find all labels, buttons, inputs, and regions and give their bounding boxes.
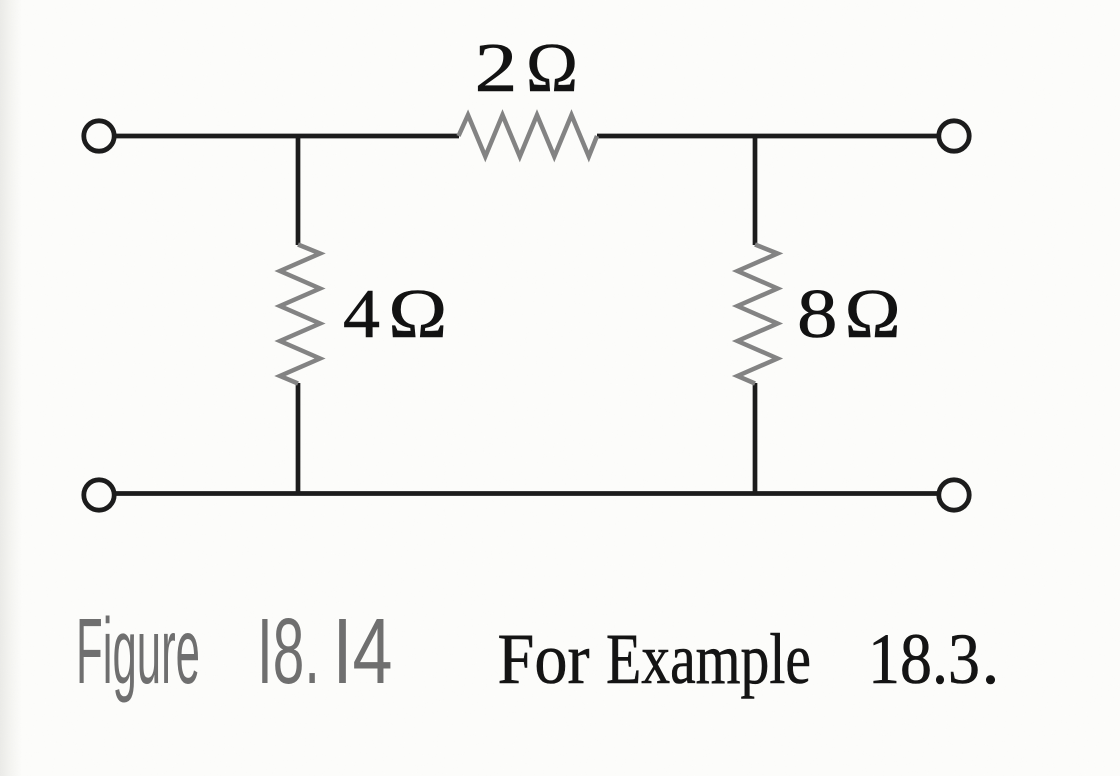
svg-text:Ω: Ω bbox=[388, 276, 447, 353]
svg-text:Ω: Ω bbox=[526, 30, 578, 107]
svg-text:Ω: Ω bbox=[845, 276, 901, 353]
resistor R3 8ohm zigzag bbox=[738, 245, 778, 384]
svg-text:I8.: I8. bbox=[257, 599, 320, 703]
wire left branch lower lead bbox=[296, 383, 301, 495]
terminal top-right bbox=[939, 121, 969, 151]
svg-text:Figure: Figure bbox=[76, 599, 200, 703]
scan left edge shading bbox=[0, 0, 22, 776]
svg-text:2: 2 bbox=[475, 30, 518, 107]
resistor R2 4ohm zigzag bbox=[280, 245, 320, 384]
svg-text:4: 4 bbox=[343, 276, 380, 353]
terminal top-left bbox=[84, 121, 114, 151]
wire right branch upper lead bbox=[753, 134, 758, 245]
wire top-right segment bbox=[597, 134, 937, 139]
svg-text:I4: I4 bbox=[333, 599, 393, 703]
svg-text:8: 8 bbox=[797, 276, 838, 353]
svg-text:18.3: 18.3 bbox=[868, 619, 980, 699]
terminal bottom-left bbox=[84, 480, 114, 510]
wire left branch upper lead bbox=[296, 134, 301, 245]
wire top-left segment bbox=[116, 134, 459, 139]
wire right branch lower lead bbox=[753, 383, 758, 495]
resistor R1 2ohm zigzag bbox=[459, 115, 598, 157]
wire bottom bbox=[116, 491, 937, 496]
svg-text:Example: Example bbox=[606, 619, 811, 699]
svg-text:.: . bbox=[982, 619, 1000, 699]
svg-text:For: For bbox=[498, 619, 590, 699]
terminal bottom-right bbox=[939, 480, 969, 510]
